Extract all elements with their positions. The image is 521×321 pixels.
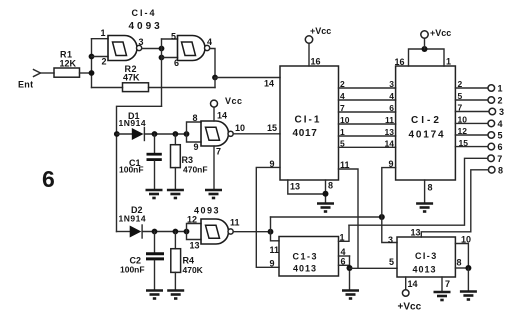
svg-text:13: 13 — [290, 182, 300, 192]
ground under CI-3 right pin 7 — [434, 292, 451, 300]
output terminal 5 — [488, 132, 495, 139]
svg-text:15: 15 — [267, 123, 277, 133]
pin 7 stub — [213, 146, 215, 189]
node dot clock — [379, 214, 385, 220]
node dot pins 8/10 — [465, 265, 471, 271]
svg-text:8: 8 — [498, 165, 503, 175]
svg-text:4: 4 — [341, 247, 346, 257]
svg-text:R3: R3 — [182, 155, 194, 165]
wire to CI-3 left pin 11 — [271, 232, 280, 241]
CI-1 pin 9 path to CI-3 left — [256, 167, 280, 267]
svg-text:9: 9 — [270, 159, 275, 169]
svg-text:3: 3 — [388, 235, 393, 245]
wire pin 6 — [162, 57, 178, 59]
svg-text:4013: 4013 — [293, 264, 317, 274]
wire CI-1 pin4 to CI-2 pin4 — [339, 99, 396, 101]
wire clock to CI-3 right pin 3 — [382, 217, 397, 243]
svg-text:2: 2 — [458, 79, 463, 89]
svg-text:9: 9 — [194, 142, 199, 152]
node dot gate D out — [268, 229, 274, 235]
svg-text:+Vcc: +Vcc — [430, 28, 451, 38]
wire CI-1 pin7 to CI-2 pin6 — [339, 111, 396, 113]
node dot gate D input — [184, 229, 190, 235]
wire gate D out rise to clock line — [270, 217, 272, 232]
svg-text:13: 13 — [411, 228, 421, 238]
ground under CI-2 — [416, 204, 433, 212]
svg-text:Ent: Ent — [18, 80, 33, 90]
bubble U1d — [228, 229, 233, 234]
node dot pin2 — [89, 54, 95, 60]
svg-text:14: 14 — [385, 138, 395, 148]
ground under C2 — [146, 291, 163, 299]
wire D1 anode — [117, 133, 132, 135]
wire gate A out down-left to diodes — [117, 106, 162, 231]
wire gate B output — [210, 49, 215, 78]
svg-text:7: 7 — [497, 154, 502, 164]
Vcc terminal CI-1 — [305, 36, 312, 43]
svg-text:1: 1 — [340, 127, 345, 137]
svg-text:470K: 470K — [183, 265, 204, 275]
wire clock line — [271, 216, 382, 218]
wire CI-2 pin 9 drop — [382, 168, 396, 217]
svg-text:5: 5 — [389, 257, 394, 267]
ground under C1 — [146, 190, 163, 198]
IC CI-1 box — [280, 66, 339, 180]
bubble U1a — [137, 45, 142, 50]
output terminal 2 — [488, 97, 495, 104]
svg-text:14: 14 — [264, 79, 274, 89]
diode D2 — [130, 226, 142, 238]
resistor R1 — [54, 68, 80, 77]
wire CI-1 pin2 to CI-2 pin3 — [339, 87, 396, 89]
svg-text:16: 16 — [395, 57, 405, 67]
svg-text:2: 2 — [340, 79, 345, 89]
wire pins 4/6 down to ground — [349, 256, 351, 290]
wire gate D output — [233, 231, 270, 233]
pin 16 stub CI-1 — [308, 43, 310, 66]
IC CI-3 right box — [397, 237, 455, 277]
svg-text:100nF: 100nF — [119, 165, 144, 175]
svg-text:CI-1: CI-1 — [295, 115, 322, 126]
wire to CI-1 pin 14 — [215, 77, 280, 79]
Vcc terminal CI-2 — [421, 31, 428, 38]
svg-text:4: 4 — [389, 91, 394, 101]
svg-text:7: 7 — [216, 147, 221, 157]
CI-1 pin 13 path — [288, 180, 326, 194]
svg-text:11: 11 — [385, 115, 394, 125]
svg-text:10: 10 — [340, 115, 350, 125]
wire pin 2 — [92, 56, 109, 58]
svg-text:4: 4 — [207, 37, 212, 47]
wire CI-3 left pin 4 — [339, 255, 350, 257]
resistor R2 — [123, 83, 149, 92]
capacitor C1 — [154, 134, 156, 153]
wire D1 node — [144, 133, 186, 135]
svg-text:1: 1 — [446, 57, 451, 67]
node dot pins 4/6 — [347, 265, 353, 271]
CI-3 right pin 7 stub — [441, 277, 443, 291]
svg-text:3: 3 — [139, 37, 144, 47]
nand gate U1c — [201, 121, 228, 146]
svg-text:4017: 4017 — [293, 128, 318, 139]
svg-text:5: 5 — [498, 131, 503, 141]
wire CI-3 right pin 8 — [455, 267, 468, 269]
bubble U1b — [205, 45, 210, 50]
svg-text:7: 7 — [445, 279, 450, 289]
wire CI-3 left pin 1 — [339, 225, 350, 241]
output terminal 8 — [488, 167, 495, 174]
ground under CI-3 left — [342, 291, 359, 299]
wire CI-3 right pin 10 — [455, 244, 468, 269]
svg-text:6: 6 — [498, 142, 503, 152]
svg-text:Vcc: Vcc — [225, 96, 243, 106]
output terminal 4 — [488, 120, 495, 127]
schmitt symbol U1a — [113, 42, 127, 56]
wire Ent to R1 — [41, 72, 55, 74]
CI-1 pin 8 stub — [325, 180, 327, 203]
CI-2 pin 8 stub — [424, 180, 426, 203]
schmitt symbol U1d — [206, 225, 220, 238]
svg-text:4093: 4093 — [129, 21, 163, 32]
svg-text:4: 4 — [340, 91, 345, 101]
wire Q line to terminal 7 — [349, 158, 488, 225]
CI-2 output wires to terminals 1-6 — [455, 87, 488, 89]
svg-text:5: 5 — [458, 91, 463, 101]
ground under gate C — [205, 190, 222, 198]
wire CI-1 pin1 to CI-2 pin13 — [339, 135, 396, 137]
svg-text:4093: 4093 — [194, 206, 220, 216]
svg-text:8: 8 — [193, 113, 198, 123]
svg-text:7: 7 — [458, 103, 463, 113]
svg-text:1N914: 1N914 — [119, 214, 147, 224]
input arrow Ent — [34, 70, 41, 77]
svg-text:14: 14 — [217, 111, 227, 121]
svg-text:11: 11 — [340, 160, 350, 170]
bubble U1c — [228, 131, 233, 136]
ground under CI-3 right pins 8/10 — [460, 292, 477, 300]
svg-text:40174: 40174 — [409, 130, 446, 141]
wire pin 5 — [162, 38, 178, 40]
Vcc terminal CI-3 right — [402, 290, 409, 297]
node dot CI-1 gnd — [323, 191, 329, 197]
output terminal 3 — [489, 108, 496, 115]
IC CI-3 left box — [279, 237, 339, 277]
svg-text:1N914: 1N914 — [119, 118, 147, 128]
svg-text:13: 13 — [190, 241, 200, 251]
svg-text:1: 1 — [498, 84, 503, 94]
ground under CI-1 — [317, 204, 334, 212]
node dot gate C input — [184, 131, 190, 137]
svg-text:R4: R4 — [183, 256, 195, 266]
wire D2 anode — [117, 231, 131, 233]
node dot D1 anode — [114, 131, 120, 137]
svg-text:8: 8 — [457, 258, 462, 268]
schmitt symbol U1c — [206, 127, 220, 140]
node left vertical — [91, 39, 93, 88]
wire CI-1 pin10 to CI-2 pin11 — [339, 123, 396, 125]
pin 14 stub — [213, 107, 215, 121]
output terminal 1 — [488, 85, 495, 92]
node dot C1 — [152, 131, 158, 137]
svg-text:470nF: 470nF — [183, 165, 208, 175]
wire R2 line right — [149, 87, 216, 89]
svg-text:2: 2 — [498, 96, 503, 106]
Vcc stub CI-2 — [424, 38, 426, 49]
svg-text:8: 8 — [428, 183, 433, 193]
svg-text:10: 10 — [235, 123, 245, 133]
resistor R4 — [174, 232, 176, 249]
svg-text:CI-3: CI-3 — [415, 251, 438, 261]
CI-2 top bracket pins 16 and 1 — [409, 49, 445, 66]
CI-3 right pin 14 stub — [405, 277, 407, 290]
svg-text:CI-2: CI-2 — [411, 115, 442, 126]
svg-text:8: 8 — [328, 181, 333, 191]
wire CI-1 pin5 to CI-2 pin14 — [339, 146, 396, 148]
wire node to ground — [467, 268, 469, 290]
wire gate A output — [142, 48, 162, 50]
gate C input bracket — [187, 122, 202, 142]
wire R2 line left — [92, 87, 123, 89]
wire feedback drop — [214, 78, 216, 88]
svg-text:10: 10 — [461, 235, 471, 245]
schmitt symbol U1b — [182, 42, 196, 56]
wire pin 1 — [92, 38, 109, 40]
svg-text:10: 10 — [458, 114, 468, 124]
node dot CI-2 vcc — [422, 46, 428, 52]
svg-text:6: 6 — [389, 103, 394, 113]
ground under R4 — [167, 291, 184, 299]
svg-text:3: 3 — [389, 79, 394, 89]
wire R1 to node — [80, 72, 92, 74]
node dot C2 — [152, 229, 158, 235]
node dot gate A out — [159, 46, 165, 52]
wire CI-3 left pin 6 — [339, 264, 350, 266]
svg-text:15: 15 — [459, 138, 469, 148]
nand gate U1d — [201, 219, 228, 244]
svg-text:12: 12 — [458, 126, 468, 136]
Vcc terminal gate C — [211, 100, 218, 107]
node dot R3 — [173, 131, 179, 137]
svg-text:7: 7 — [340, 103, 345, 113]
wire node to CI-3 right pin 5 — [350, 267, 398, 269]
svg-text:47K: 47K — [123, 73, 140, 83]
output terminal 6 — [488, 143, 495, 150]
svg-text:2: 2 — [102, 57, 107, 67]
CI-1 pin 11 path — [339, 169, 359, 268]
gate D input bracket — [187, 224, 202, 240]
svg-text:4013: 4013 — [413, 265, 437, 275]
svg-text:13: 13 — [385, 127, 395, 137]
wire D2 node — [142, 231, 186, 233]
svg-text:12: 12 — [187, 215, 197, 225]
resistor R3 — [174, 134, 176, 145]
svg-text:6: 6 — [341, 257, 346, 267]
diode D1 — [132, 128, 144, 140]
svg-text:CI-4: CI-4 — [132, 8, 157, 18]
output terminal 7 — [488, 155, 495, 162]
svg-text:1: 1 — [101, 28, 106, 38]
svg-text:+Vcc: +Vcc — [310, 26, 331, 36]
svg-text:+Vcc: +Vcc — [398, 302, 422, 313]
svg-text:5: 5 — [340, 138, 345, 148]
svg-text:4: 4 — [498, 119, 503, 129]
svg-text:12K: 12K — [60, 59, 77, 69]
svg-text:14: 14 — [408, 279, 418, 289]
svg-text:11: 11 — [230, 218, 240, 228]
node dot gate B out — [212, 75, 218, 81]
node dot R1 — [89, 70, 95, 76]
node dot R4 — [173, 229, 179, 235]
capacitor C2 — [154, 232, 156, 253]
ground under R3 — [167, 190, 184, 198]
svg-text:16: 16 — [311, 57, 321, 67]
wire gate C output to CI-1 pin 15 — [233, 133, 280, 135]
svg-text:C1-3: C1-3 — [293, 252, 319, 262]
svg-text:9: 9 — [270, 259, 275, 269]
wire CI-3 right pin 13 — [421, 170, 488, 237]
node dot pin6 — [159, 55, 165, 61]
svg-text:6: 6 — [42, 166, 55, 192]
svg-text:100nF: 100nF — [120, 265, 145, 275]
svg-text:3: 3 — [499, 107, 504, 117]
svg-text:5: 5 — [171, 32, 176, 42]
IC CI-2 box — [396, 66, 456, 180]
wire mid vertical — [161, 39, 163, 106]
nand gate U1b — [178, 36, 205, 61]
svg-text:1: 1 — [340, 233, 345, 243]
svg-text:11: 11 — [270, 245, 280, 255]
nand gate U1a — [108, 36, 137, 61]
